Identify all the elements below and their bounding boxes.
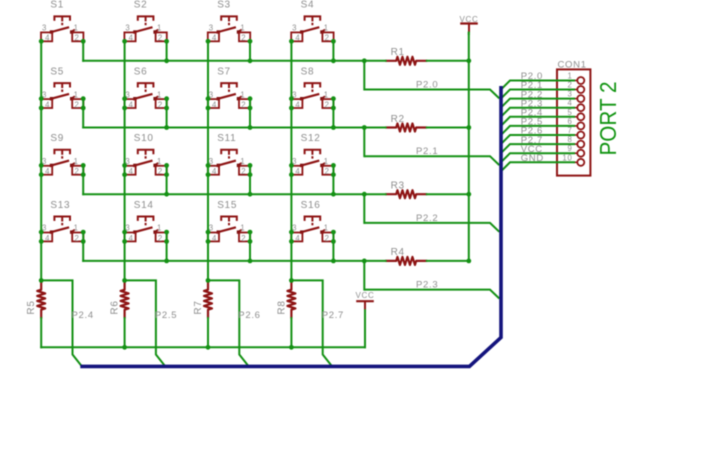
svg-text:5: 5 [567, 108, 572, 117]
junction S3 pin2 [248, 39, 253, 44]
junction S14 pin1 [164, 230, 169, 235]
pin 6 circle [577, 122, 584, 129]
lever contact [302, 227, 320, 232]
junction S7 pin3 [206, 96, 211, 101]
junction S12 pin1 [331, 163, 336, 168]
svg-text:9: 9 [567, 144, 572, 153]
wire row 3 net P2.2 horizontal [83, 193, 385, 195]
pin 10 lead [574, 161, 577, 163]
svg-text:1: 1 [240, 24, 245, 33]
junction row 1 VCC rail [466, 58, 471, 63]
wire switch S7 pin2 to row wire [249, 99, 251, 128]
junction S13 pin4 [39, 239, 44, 244]
wire row 4 net P2.3 horizontal [83, 260, 385, 262]
junction row 4 tap P2.3 [362, 259, 367, 264]
wire net P2.2 drop from row wire [363, 194, 365, 223]
junction row 1 col 4 [331, 58, 336, 63]
wire row 2 net P2.1 horizontal [83, 127, 385, 129]
resistor R7 [193, 281, 212, 319]
svg-text:2: 2 [74, 167, 79, 176]
resistor R6 [110, 281, 129, 319]
svg-text:2: 2 [241, 34, 246, 43]
junction row 3 col 2 [164, 192, 169, 197]
actuator button [138, 217, 154, 221]
actuator button [305, 217, 321, 221]
junction S5 pin4 [39, 106, 44, 111]
junction S3 pin4 [206, 39, 211, 44]
junction VCC rail R8 [289, 345, 294, 350]
svg-text:3: 3 [209, 24, 214, 33]
switch S1 [41, 0, 83, 43]
actuator button [138, 150, 154, 154]
lever contact [51, 227, 69, 232]
pin boxes [41, 233, 52, 242]
junction S14 pin3 [122, 230, 127, 235]
svg-text:2: 2 [241, 100, 246, 109]
pin 8 lead [574, 143, 577, 145]
power symbol VCC top [460, 15, 479, 32]
svg-text:R6: R6 [110, 300, 121, 314]
svg-text:2: 2 [241, 167, 246, 176]
svg-text:3: 3 [42, 24, 47, 33]
wire resistor R8 bottom to VCC rail [290, 318, 292, 347]
svg-text:S2: S2 [134, 0, 148, 11]
svg-text:S14: S14 [134, 200, 154, 211]
pin boxes [41, 166, 52, 175]
svg-text:S7: S7 [217, 66, 231, 77]
pin 9 circle [577, 150, 584, 157]
wire column net P2.6 vertical [207, 41, 209, 281]
svg-text:S9: S9 [50, 133, 64, 144]
junction S9 pin4 [39, 172, 44, 177]
wire net P2.7 branch to bus [291, 280, 331, 365]
junction S5 pin3 [39, 96, 44, 101]
wire switch S2 pin2 to row wire [166, 41, 168, 61]
resistor R4 [385, 247, 427, 265]
lever contact [135, 94, 153, 99]
pin pads [133, 30, 136, 33]
pin boxes [124, 99, 135, 108]
junction S10 pin3 [122, 163, 127, 168]
pin 2 circle [577, 86, 584, 93]
junction S16 pin4 [289, 239, 294, 244]
lever contact [51, 27, 69, 32]
junction row 4 col 2 [164, 259, 169, 264]
svg-text:1: 1 [324, 24, 329, 33]
junction row 1 tap P2.0 [362, 58, 367, 63]
svg-text:4: 4 [129, 100, 134, 109]
junction S11 pin3 [206, 163, 211, 168]
wire top VCC to rail [468, 33, 470, 35]
junction row 3 col 3 [248, 192, 253, 197]
wire connector pin 7 net P2.6 [501, 135, 575, 144]
bus B1 [80, 86, 501, 366]
svg-text:S11: S11 [217, 133, 236, 144]
pin 4 circle [577, 104, 584, 111]
junction column P2.7 branch [289, 278, 294, 283]
junction S2 pin4 [122, 39, 127, 44]
pin boxes [124, 32, 135, 41]
svg-text:10: 10 [562, 153, 572, 162]
pin boxes [291, 99, 302, 108]
wire net P2.4 branch to bus [41, 280, 81, 365]
wire net P2.2 feeder to bus [364, 223, 499, 232]
pin 7 lead [574, 134, 577, 136]
junction row 3 tap P2.2 [362, 192, 367, 197]
svg-text:1: 1 [157, 90, 162, 99]
lever contact [218, 227, 236, 232]
svg-text:P2.3: P2.3 [416, 280, 438, 291]
svg-text:4: 4 [295, 34, 300, 43]
wire net P2.1 feeder to bus [364, 156, 499, 165]
pin 5 circle [577, 113, 584, 120]
pin pads [300, 30, 303, 33]
wire switch S11 pin2 to row wire [249, 165, 251, 194]
lever contact [51, 161, 69, 166]
switch S15 [208, 200, 250, 243]
switch S10 [124, 133, 166, 176]
svg-text:3: 3 [567, 90, 572, 99]
junction S8 pin2 [331, 106, 336, 111]
pin boxes [291, 166, 302, 175]
svg-text:1: 1 [157, 224, 162, 233]
actuator button [54, 217, 70, 221]
pin pads [300, 97, 303, 100]
svg-text:1: 1 [74, 24, 79, 33]
pin 2 lead [574, 89, 577, 91]
junction S6 pin2 [164, 106, 169, 111]
svg-text:2: 2 [241, 234, 246, 243]
resistor R8 [276, 281, 295, 319]
pin boxes [124, 233, 135, 242]
pin pads [133, 164, 136, 167]
junction row 4 col 4 [331, 259, 336, 264]
svg-text:S16: S16 [301, 200, 321, 211]
lever contact [218, 94, 236, 99]
svg-text:1: 1 [240, 157, 245, 166]
junction S14 pin4 [122, 239, 127, 244]
wire column net P2.5 vertical [124, 41, 126, 281]
pin boxes [208, 166, 219, 175]
svg-text:4: 4 [295, 167, 300, 176]
wire column net P2.7 vertical [290, 41, 292, 281]
junction S11 pin1 [248, 163, 253, 168]
svg-text:R3: R3 [391, 181, 405, 192]
svg-text:2: 2 [325, 234, 330, 243]
svg-text:S5: S5 [50, 66, 64, 77]
lever contact [218, 161, 236, 166]
svg-text:4: 4 [295, 100, 300, 109]
lever contact [135, 161, 153, 166]
junction S15 pin1 [248, 230, 253, 235]
wire switch S13 pin2 to row wire [82, 232, 84, 261]
svg-text:S13: S13 [50, 200, 70, 211]
pin 1 lead [574, 80, 577, 82]
junction VCC rail R6 [122, 345, 127, 350]
pin pads [50, 30, 53, 33]
power symbol VCC bottom [356, 291, 375, 310]
svg-text:1: 1 [74, 224, 79, 233]
svg-text:CON1: CON1 [558, 59, 587, 70]
junction S11 pin2 [248, 172, 253, 177]
lever contact [218, 27, 236, 32]
svg-text:2: 2 [158, 100, 163, 109]
switch S11 [208, 133, 250, 176]
junction S1 pin2 [81, 39, 86, 44]
svg-text:S12: S12 [301, 133, 321, 144]
lever contact [51, 94, 69, 99]
pin 9 lead [574, 152, 577, 154]
junction S5 pin1 [81, 96, 86, 101]
svg-text:4: 4 [129, 234, 134, 243]
svg-text:P2.2: P2.2 [416, 213, 438, 224]
lever contact [302, 27, 320, 32]
switch S4 [291, 0, 333, 43]
svg-text:4: 4 [45, 234, 50, 243]
junction row 2 VCC rail [466, 125, 471, 130]
junction S4 pin4 [289, 39, 294, 44]
pin boxes [291, 32, 302, 41]
actuator button [138, 16, 154, 20]
junction S16 pin3 [289, 230, 294, 235]
svg-text:S6: S6 [134, 66, 148, 77]
resistor R2 [385, 114, 427, 132]
wire connector pin 9 net VCC [501, 153, 575, 162]
pin pads [133, 97, 136, 100]
pin 6 lead [574, 125, 577, 127]
pin boxes [124, 166, 135, 175]
pin 3 circle [577, 95, 584, 102]
svg-text:4: 4 [212, 234, 217, 243]
pin pads [50, 230, 53, 233]
svg-text:R1: R1 [391, 47, 405, 58]
svg-text:4: 4 [45, 100, 50, 109]
junction row 3 VCC rail [466, 192, 471, 197]
wire connector pin 1 net P2.0 [501, 81, 575, 90]
pin 3 lead [574, 98, 577, 100]
wire switch S5 pin2 to row wire [82, 99, 84, 128]
svg-text:4: 4 [295, 234, 300, 243]
svg-text:1: 1 [74, 157, 79, 166]
svg-text:4: 4 [129, 167, 134, 176]
resistor R5 [26, 281, 45, 319]
svg-text:P2.1: P2.1 [416, 146, 438, 157]
svg-text:1: 1 [157, 157, 162, 166]
svg-text:4: 4 [45, 34, 50, 43]
svg-text:2: 2 [158, 34, 163, 43]
pin pads [217, 230, 220, 233]
svg-text:7: 7 [567, 126, 572, 135]
wire VCC rail vertical [468, 33, 470, 261]
svg-text:4: 4 [45, 167, 50, 176]
svg-text:4: 4 [212, 100, 217, 109]
junction S15 pin4 [206, 239, 211, 244]
pin boxes [208, 233, 219, 242]
junction S6 pin4 [122, 106, 127, 111]
wire resistor R6 bottom to VCC rail [124, 318, 126, 347]
pin 10 circle [577, 159, 584, 166]
svg-text:P2.5: P2.5 [155, 310, 177, 321]
svg-text:2: 2 [158, 234, 163, 243]
pin boxes [41, 99, 52, 108]
wire net P2.3 drop from row wire [363, 261, 365, 290]
junction column P2.5 branch [122, 278, 127, 283]
wire switch S1 pin2 to row wire [82, 41, 84, 61]
actuator button [221, 150, 237, 154]
pin pads [300, 164, 303, 167]
actuator button [221, 83, 237, 87]
svg-text:S4: S4 [301, 0, 315, 11]
svg-text:R5: R5 [26, 300, 37, 314]
wire net P2.6 branch to bus [208, 280, 248, 365]
junction S11 pin4 [206, 172, 211, 177]
junction S6 pin3 [122, 96, 127, 101]
pin 7 circle [577, 132, 584, 139]
pin 1 circle [577, 77, 584, 84]
pin pads [50, 97, 53, 100]
svg-text:R8: R8 [276, 300, 287, 314]
wire connector pin 6 net P2.5 [501, 126, 575, 135]
junction row 2 tap P2.1 [362, 125, 367, 130]
wire resistor R7 bottom to VCC rail [207, 318, 209, 347]
wire column net P2.4 vertical [40, 41, 42, 281]
junction column P2.6 branch [206, 278, 211, 283]
svg-text:4: 4 [212, 34, 217, 43]
switch S2 [124, 0, 166, 43]
junction column P2.4 branch [39, 278, 44, 283]
wire connector pin 2 net P2.1 [501, 90, 575, 99]
wire connector pin 3 net P2.2 [501, 99, 575, 108]
pin 5 lead [574, 116, 577, 118]
junction row 2 col 3 [248, 125, 253, 130]
junction S12 pin3 [289, 163, 294, 168]
junction S10 pin2 [164, 172, 169, 177]
junction S4 pin2 [331, 39, 336, 44]
actuator button [54, 16, 70, 20]
svg-text:1: 1 [567, 72, 572, 81]
wire switch S3 pin2 to row wire [249, 41, 251, 61]
junction row 4 VCC rail [466, 259, 471, 264]
junction S8 pin4 [289, 106, 294, 111]
junction S12 pin2 [331, 172, 336, 177]
junction S7 pin4 [206, 106, 211, 111]
wire switch S8 pin2 to row wire [332, 99, 334, 128]
junction S16 pin2 [331, 239, 336, 244]
junction S9 pin1 [81, 163, 86, 168]
switch S16 [291, 200, 333, 243]
actuator button [138, 83, 154, 87]
junction S7 pin2 [248, 106, 253, 111]
svg-text:PORT 2: PORT 2 [595, 82, 621, 156]
junction row 2 col 2 [164, 125, 169, 130]
junction S8 pin1 [331, 96, 336, 101]
svg-text:1: 1 [324, 90, 329, 99]
svg-text:4: 4 [129, 34, 134, 43]
junction S15 pin2 [248, 239, 253, 244]
pin boxes [208, 99, 219, 108]
wire switch S15 pin2 to row wire [249, 232, 251, 261]
junction S16 pin1 [331, 230, 336, 235]
pin pads [217, 30, 220, 33]
svg-text:4: 4 [212, 167, 217, 176]
pin 4 lead [574, 107, 577, 109]
wire connector pin 5 net P2.4 [501, 117, 575, 126]
actuator button [305, 83, 321, 87]
junction S10 pin4 [122, 172, 127, 177]
svg-text:S3: S3 [217, 0, 231, 11]
wire net P2.3 feeder to bus [364, 290, 499, 299]
wire switch S4 pin2 to row wire [332, 41, 334, 61]
junction S13 pin1 [81, 230, 86, 235]
switch S8 [291, 66, 333, 109]
wire switch S10 pin2 to row wire [166, 165, 168, 194]
connector CON1 [521, 59, 591, 175]
svg-text:VCC: VCC [356, 291, 375, 300]
junction S7 pin1 [248, 96, 253, 101]
junction S10 pin1 [164, 163, 169, 168]
svg-text:2: 2 [158, 167, 163, 176]
junction S13 pin2 [81, 239, 86, 244]
svg-text:P2.0: P2.0 [416, 80, 438, 91]
junction S9 pin3 [39, 163, 44, 168]
lever contact [302, 94, 320, 99]
actuator button [305, 16, 321, 20]
junction row 2 col 4 [331, 125, 336, 130]
svg-text:8: 8 [567, 135, 572, 144]
pin pads [217, 164, 220, 167]
wire switch S14 pin2 to row wire [166, 232, 168, 261]
wire net P2.0 feeder to bus [364, 90, 499, 99]
lever contact [302, 161, 320, 166]
wire bottom VCC rail [41, 346, 365, 348]
junction S9 pin2 [81, 172, 86, 177]
connector body [557, 69, 590, 175]
junction VCC rail R7 [206, 345, 211, 350]
switch S3 [208, 0, 250, 43]
pin pads [300, 230, 303, 233]
junction S2 pin2 [164, 39, 169, 44]
svg-text:1: 1 [324, 157, 329, 166]
wire resistor R5 bottom to VCC rail [40, 318, 42, 347]
junction S14 pin2 [164, 239, 169, 244]
svg-text:R7: R7 [193, 300, 204, 314]
pin pads [217, 97, 220, 100]
svg-text:2: 2 [74, 234, 79, 243]
pin pads [133, 230, 136, 233]
switch S12 [291, 133, 333, 176]
svg-text:1: 1 [324, 224, 329, 233]
svg-text:2: 2 [567, 81, 572, 90]
svg-text:1: 1 [240, 224, 245, 233]
junction S15 pin3 [206, 230, 211, 235]
svg-text:S15: S15 [217, 200, 237, 211]
switch S5 [41, 66, 83, 109]
junction S6 pin1 [164, 96, 169, 101]
pin boxes [291, 233, 302, 242]
svg-text:1: 1 [74, 90, 79, 99]
actuator button [54, 150, 70, 154]
resistor R1 [385, 47, 427, 65]
junction row 4 col 3 [248, 259, 253, 264]
junction S8 pin3 [289, 96, 294, 101]
svg-text:2: 2 [325, 167, 330, 176]
wire row 1 net P2.0 horizontal [83, 60, 385, 62]
switch S6 [124, 66, 166, 109]
svg-text:4: 4 [567, 99, 572, 108]
wire switch S9 pin2 to row wire [82, 165, 84, 194]
wire bottom VCC symbol stem [364, 310, 366, 347]
svg-text:P2.6: P2.6 [238, 310, 260, 321]
